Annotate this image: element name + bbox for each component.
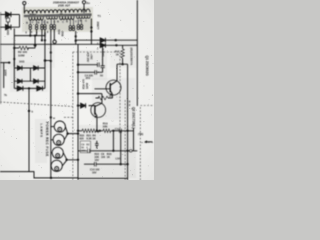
svg-text:B: B [47,21,49,24]
capacitor C5 [101,44,105,72]
svg-text:C: C [75,20,77,23]
label 2SC802G [145,56,149,77]
svg-text:1K: 1K [109,95,112,98]
svg-text:C: C [85,20,87,23]
node dot left bus [13,58,15,60]
wire bottom row2 [78,150,137,152]
transistor Q1 [95,80,122,98]
node dots row90 [28,87,30,112]
label R2 [18,50,27,63]
wire bus 127 [127,64,129,180]
svg-text:C: C [32,21,34,24]
label tap marks [26,19,87,24]
label bottom text2 [95,153,112,162]
label bottom text1 [80,134,97,140]
svg-text:(TB): (TB) [138,132,143,136]
label POWER REC FUSE [45,122,49,157]
scan bleed washes [0,7,138,178]
wire stub node [45,60,51,62]
label Q2 2SC738 [132,107,136,128]
dashed boundary vertical mid [72,52,74,180]
node G [121,63,123,65]
svg-text:16V: 16V [95,159,100,162]
capacitor C7 [95,141,99,149]
arrow right edge [144,140,152,143]
label R18 [109,95,112,98]
bridge frame [14,48,45,88]
wire row 35.6 [14,30,45,89]
paper speckle noise [1,2,154,178]
wire diode feed [76,39,101,41]
label LAMPS [40,124,44,138]
label diode nums [97,43,99,50]
label 100V [4,70,8,77]
node dots bus127 [126,130,128,166]
svg-text:100V: 100V [4,70,8,77]
transformer T1 primary [24,9,90,14]
wire bottom row3 [84,163,128,165]
label connector marks [26,32,50,34]
node E [115,39,117,41]
svg-text:Q1 2SC802G: Q1 2SC802G [145,56,149,77]
wire bus right [136,0,138,106]
svg-text:AC: AC [4,16,8,20]
transformer T1 secondary winding A [29,17,44,21]
svg-text:LAMPS: LAMPS [40,124,44,138]
capacitor C6 [120,129,122,133]
wire row 72.4 [78,71,103,73]
label TB [138,132,143,136]
svg-text:100: 100 [101,156,106,159]
transformer T1 secondary winding C [60,16,75,20]
svg-text:B: B [57,20,59,23]
svg-text:L5A: L5A [116,158,121,161]
diode BD4 [34,79,39,83]
svg-text:1K: 1K [107,156,110,159]
node dots bus B [77,63,79,131]
resistor R2 [14,46,35,50]
svg-text:C: C [62,21,64,24]
fuse F1 [6,15,9,28]
label 2SC867A [130,48,134,66]
diode D1 [6,12,11,17]
wire bottom row1 [78,130,134,132]
resistor R22 [103,129,111,132]
page edge line [0,12,2,104]
terminal row2 [130,150,133,153]
svg-text:+35C: +35C [89,54,93,60]
dashed boundary left [0,102,73,107]
resistor R21 [90,129,98,132]
lamp L1 [51,121,66,132]
svg-text:R16 470: R16 470 [82,79,86,89]
wire bottom step [0,172,78,178]
label 2SB77 [96,22,100,30]
svg-text:2SB: 2SB [61,31,65,36]
svg-text:1K: 1K [93,137,96,140]
node dots row 35 [29,34,52,62]
svg-text:1/2W: 1/2W [18,54,25,58]
wire row 90 [14,88,45,171]
svg-text:10Ω: 10Ω [19,60,25,64]
terminal P2 [82,1,85,13]
label above C11 [115,128,120,131]
svg-text:Q2 2SC738(L): Q2 2SC738(L) [132,107,136,128]
dashed boundary top [73,51,120,53]
label L5A [116,158,121,161]
capacitor C8 [88,149,90,153]
label part numbers [53,0,90,7]
label 7b [4,94,7,97]
resistor R17 [121,45,124,64]
diode D4 [37,86,43,91]
label R19 [103,121,108,128]
label R16 [82,79,90,89]
wire lamp pair B [62,153,79,166]
label C5 [101,49,105,57]
label 4B [32,111,56,121]
label C4 [85,73,104,80]
diode BD1 [17,66,22,70]
capacitor C3 [97,63,99,67]
label C3 [86,53,93,63]
dashed boundary 867 module [119,52,121,131]
svg-text:(R)2SC867A: (R)2SC867A [130,48,134,66]
resistor R20 [82,129,90,132]
svg-text:w: w [53,117,55,120]
node dot AC [8,61,10,63]
capacitor C10 [94,162,96,166]
svg-text:POWER REC FUSE: POWER REC FUSE [45,122,49,157]
dashed boundary right1 [124,100,126,180]
dashed lamp box [64,116,73,118]
node F [115,44,117,46]
diode BD2 [34,66,39,70]
wire row 65 [78,64,97,66]
svg-text:25V: 25V [86,76,91,80]
dashed boundary right2 [139,107,141,180]
svg-text:8.2K: 8.2K [87,137,92,140]
diode D2 [6,25,11,30]
terminal P1 [23,1,26,12]
svg-text:B: B [26,22,28,25]
svg-text:820: 820 [80,137,85,140]
connector J1 pairs [29,24,56,29]
label AC [4,16,8,20]
svg-text:2SB77: 2SB77 [96,22,100,30]
svg-text:1K: 1K [116,54,119,57]
svg-text:B: B [66,20,68,23]
dashed stub right top [140,105,154,107]
box module [80,141,90,152]
terminal P3 [53,30,56,44]
node dot step [50,177,52,179]
diode D6 [100,43,137,48]
svg-text:10Ω: 10Ω [6,30,10,36]
svg-text:C11: C11 [115,128,120,131]
label 2SB53V [57,30,65,37]
wire verticals bottom right [113,128,133,164]
transistor Q2 [89,103,106,131]
transformer T1 core [24,14,92,17]
svg-text:C: C [54,21,56,24]
diode D3 [17,86,23,91]
label bottom text3 [90,168,100,174]
wire AC line top [0,15,20,28]
label R17 [115,50,120,56]
connector J2 pairs [69,24,83,30]
lamp L2 [51,134,65,145]
diode BD3 [17,79,22,83]
diode D7 [78,103,86,108]
wire vertical left bus [13,29,15,67]
svg-text:B: B [38,21,40,24]
label T1 [98,14,102,18]
svg-text:R0#00: R0#00 [30,14,37,16]
node dots row 44 [50,26,93,53]
node dot lamp top [50,116,52,118]
label tap numbers [30,14,64,17]
wire lamp pair A [64,127,79,140]
label 10W [6,30,10,36]
svg-text:22K: 22K [103,125,108,129]
wire Q2 collector riser [78,94,102,104]
resistor R18 [96,96,113,100]
capacitor C4 [95,70,97,74]
node dots row131 [96,130,122,166]
svg-text:53V: 53V [57,30,61,35]
svg-text:16V: 16V [92,171,97,174]
diode D5 [100,38,137,43]
wire taps [30,20,81,26]
svg-text:0.0047: 0.0047 [101,49,105,57]
wire left AC [0,63,9,88]
svg-text:T1: T1 [98,14,102,18]
transformer T1 secondary winding B [47,17,58,20]
transformer T1 secondary winding D [77,16,91,19]
lamp L3 [51,147,64,158]
dashed stub right mid [141,142,154,144]
wire collector Q1 [117,64,128,81]
svg-text:2SB 407: 2SB 407 [58,4,70,8]
svg-text:2o: 2o [86,1,90,5]
wire bottom edge [78,177,128,179]
lamp L4 [51,160,63,171]
label 92 [129,100,131,107]
svg-text:1/2W: 1/2W [85,82,89,89]
wire bus B [77,44,79,180]
wire row 44.3 [0,19,100,178]
label 53V mid [43,33,47,38]
svg-text:470 25V: 470 25V [86,53,90,63]
